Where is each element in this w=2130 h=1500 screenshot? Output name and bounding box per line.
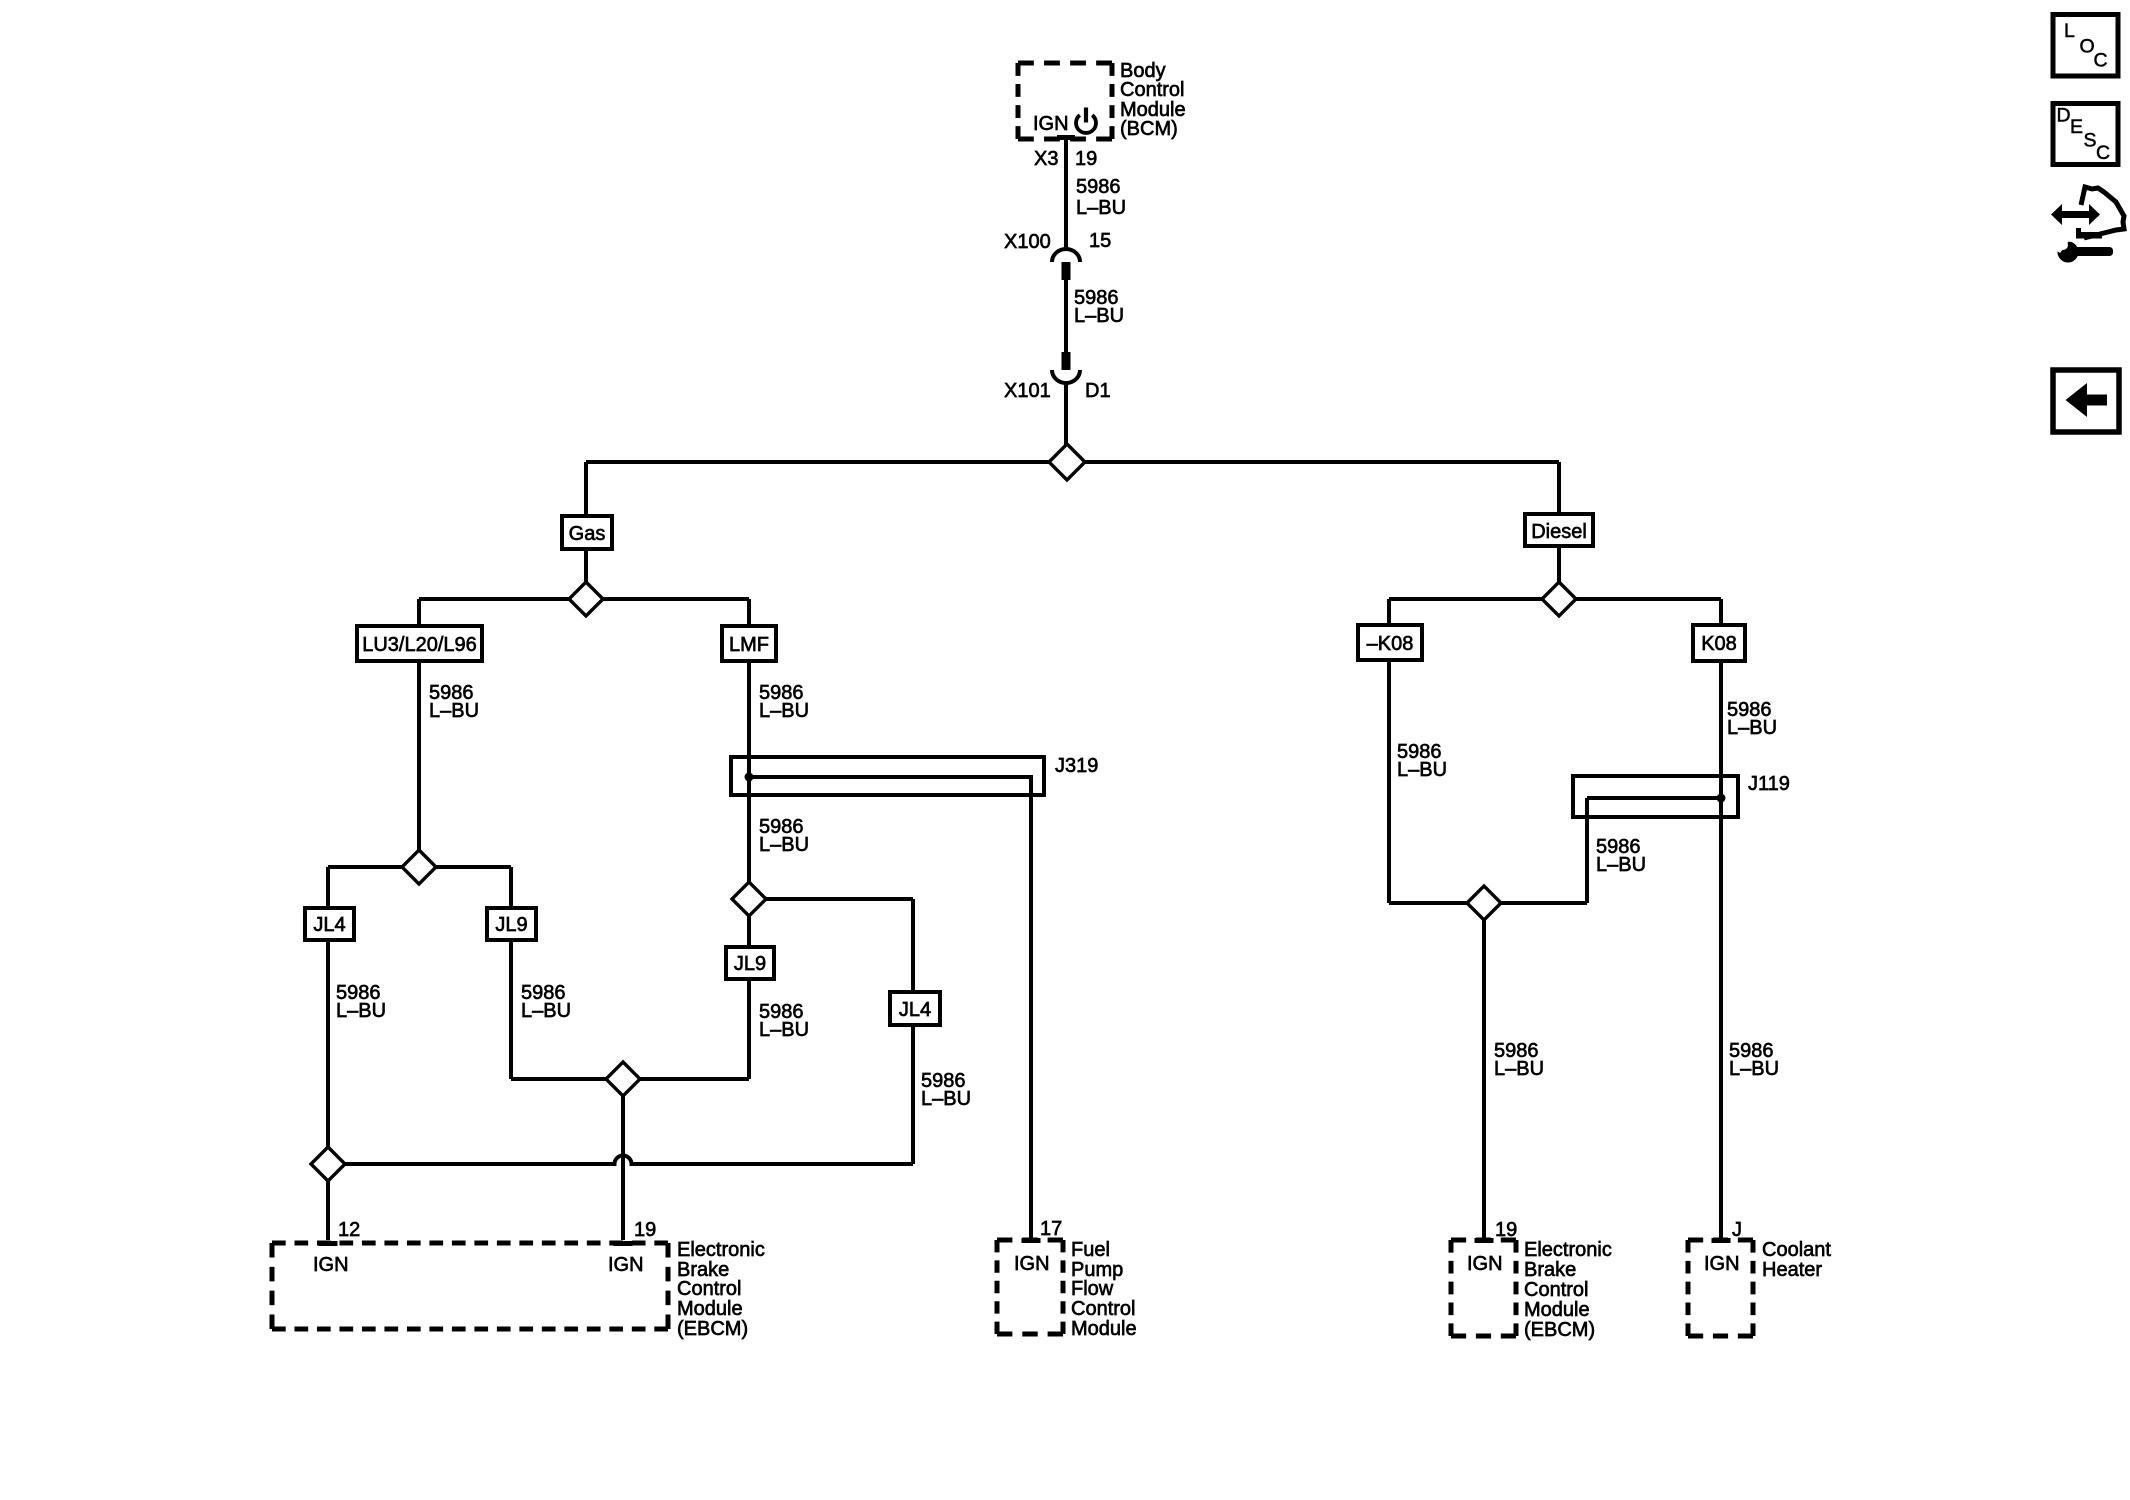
svg-text:L–BU: L–BU [1074,305,1124,327]
svg-text:J319: J319 [1055,755,1098,777]
svg-text:15: 15 [1089,230,1111,252]
svg-text:(BCM): (BCM) [1120,118,1178,140]
svg-text:Electronic: Electronic [677,1239,765,1261]
svg-text:IGN: IGN [1033,113,1069,135]
svg-text:C: C [2096,142,2110,164]
svg-text:LMF: LMF [729,634,769,656]
svg-text:L–BU: L–BU [1494,1058,1544,1080]
svg-text:JL9: JL9 [495,914,527,936]
svg-text:Control: Control [677,1278,741,1300]
svg-text:Flow: Flow [1071,1278,1114,1300]
svg-text:19: 19 [1495,1219,1517,1241]
svg-text:Diesel: Diesel [1531,521,1587,543]
svg-text:L–BU: L–BU [1596,854,1646,876]
svg-text:L–BU: L–BU [521,1000,571,1022]
svg-text:L–BU: L–BU [759,1019,809,1041]
svg-text:(EBCM): (EBCM) [1524,1319,1595,1341]
svg-text:K08: K08 [1701,633,1737,655]
svg-text:Control: Control [1071,1298,1135,1320]
svg-text:Module: Module [1071,1318,1137,1340]
svg-text:X101: X101 [1004,380,1051,402]
svg-text:L–BU: L–BU [921,1088,971,1110]
svg-text:C: C [2094,50,2108,72]
svg-text:JL4: JL4 [899,999,931,1021]
svg-text:IGN: IGN [1704,1253,1740,1275]
svg-text:S: S [2084,130,2097,152]
svg-text:–K08: –K08 [1367,633,1414,655]
svg-text:L–BU: L–BU [1729,1058,1779,1080]
svg-text:Brake: Brake [1524,1259,1576,1281]
svg-text:L–BU: L–BU [759,834,809,856]
svg-text:Heater: Heater [1762,1259,1822,1281]
svg-text:D: D [2057,105,2071,127]
svg-text:L–BU: L–BU [1727,717,1777,739]
svg-text:19: 19 [1075,148,1097,170]
svg-text:IGN: IGN [608,1254,644,1276]
svg-text:E: E [2070,116,2083,138]
svg-text:J: J [1732,1219,1742,1241]
svg-text:Fuel: Fuel [1071,1239,1110,1261]
svg-text:L–BU: L–BU [336,1000,386,1022]
svg-text:Coolant: Coolant [1762,1239,1831,1261]
svg-text:L–BU: L–BU [1076,197,1126,219]
svg-text:Electronic: Electronic [1524,1239,1612,1261]
svg-text:IGN: IGN [1014,1253,1050,1275]
svg-text:X100: X100 [1004,231,1051,253]
svg-text:L–BU: L–BU [759,700,809,722]
svg-text:L–BU: L–BU [429,700,479,722]
svg-text:LU3/L20/L96: LU3/L20/L96 [362,634,477,656]
svg-text:5986: 5986 [1076,176,1121,198]
svg-text:Control: Control [1120,79,1184,101]
svg-text:X3: X3 [1034,148,1058,170]
svg-text:D1: D1 [1085,380,1111,402]
svg-text:L: L [2064,20,2075,42]
svg-text:19: 19 [634,1219,656,1241]
svg-text:JL4: JL4 [313,914,345,936]
svg-text:J119: J119 [1748,773,1790,795]
svg-text:L–BU: L–BU [1397,759,1447,781]
svg-text:JL9: JL9 [734,953,766,975]
svg-text:(EBCM): (EBCM) [677,1318,748,1340]
svg-text:Gas: Gas [569,523,606,545]
svg-text:O: O [2080,36,2095,58]
svg-text:IGN: IGN [313,1254,349,1276]
svg-text:IGN: IGN [1467,1253,1503,1275]
svg-text:12: 12 [338,1219,360,1241]
svg-text:17: 17 [1040,1218,1062,1240]
svg-text:Module: Module [677,1298,743,1320]
svg-text:Module: Module [1524,1299,1590,1321]
svg-text:Control: Control [1524,1279,1588,1301]
